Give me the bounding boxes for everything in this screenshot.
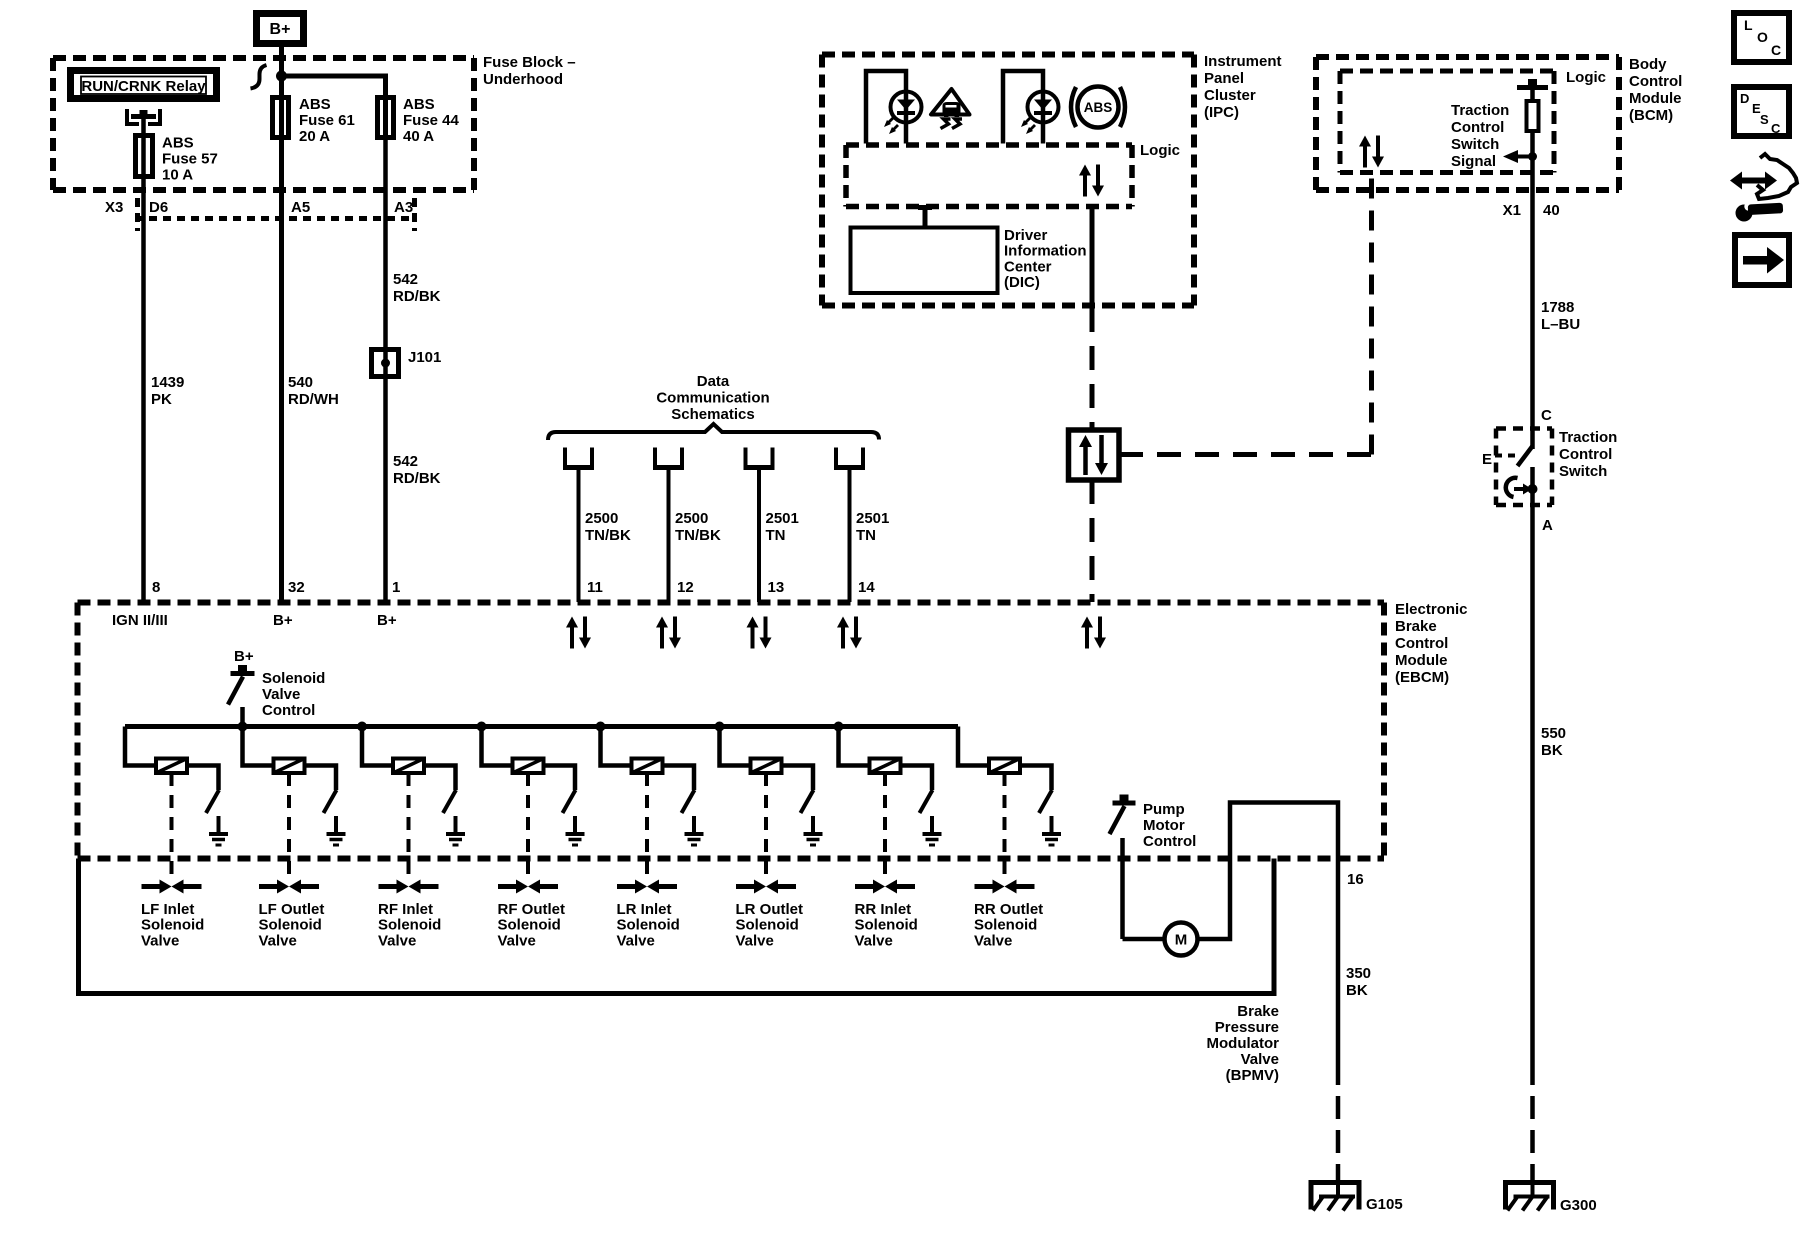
solenoid coil RF Inlet [393,759,424,774]
connector serial data 2 [653,448,657,468]
wire coil to driver switch RR Outlet [1020,766,1052,791]
serial data arrows EBCM from BCM link [1085,627,1089,649]
svg-text:40: 40 [1543,202,1560,219]
svg-text:2501: 2501 [766,510,799,527]
svg-text:Control: Control [262,702,315,719]
junction node bus RR Inlet [834,722,844,732]
svg-text:1: 1 [392,579,400,596]
svg-text:X1: X1 [1503,202,1521,219]
dashed serial data wire to EBCM [1090,480,1095,602]
svg-text:542: 542 [393,271,418,288]
svg-text:Fuse Block –: Fuse Block – [483,54,576,71]
wire coil to driver switch RF Inlet [424,766,456,791]
svg-text:C: C [1771,121,1781,136]
svg-text:Control: Control [1143,833,1196,850]
wire serial data 2501 TN [848,470,852,602]
svg-text:BK: BK [1346,982,1368,999]
ground G300 [1506,1183,1554,1210]
ground internal RR Inlet [930,816,934,834]
svg-text:ABS: ABS [403,96,435,113]
svg-text:2501: 2501 [856,510,889,527]
svg-text:Module: Module [1629,90,1682,107]
splice hook symbol at B+ branch [251,65,267,89]
svg-text:Panel: Panel [1204,70,1244,87]
svg-text:1439: 1439 [151,374,184,391]
svg-text:Solenoid: Solenoid [259,917,322,934]
svg-text:Traction: Traction [1451,102,1509,119]
dashed serial data wire to BCM [1119,452,1372,457]
dashed actuator wire LF Inlet [170,773,174,880]
svg-text:Valve: Valve [736,932,774,949]
svg-text:B+: B+ [234,648,254,665]
svg-text:S: S [1760,112,1769,127]
svg-text:X3: X3 [105,199,123,216]
svg-text:ABS: ABS [1084,100,1113,115]
serial data interface box [1069,430,1120,480]
dashed actuator wire LR Inlet [645,773,649,880]
solenoid coil LR Outlet [751,759,782,774]
svg-text:(IPC): (IPC) [1204,104,1239,121]
wire 350 BK dashed to G105 [1336,1062,1341,1185]
svg-text:Underhood: Underhood [483,71,563,88]
svg-text:Information: Information [1004,243,1087,260]
svg-text:550: 550 [1541,725,1566,742]
switch pump motor control [1113,801,1136,806]
svg-text:Pressure: Pressure [1215,1019,1279,1036]
valve symbol RR Inlet solenoid valve [855,884,873,889]
svg-text:Fuse 44: Fuse 44 [403,112,460,129]
dashed actuator wire LR Outlet [764,773,768,880]
valve symbol LR Inlet solenoid valve [617,884,635,889]
fuse F61 ABS Fuse 61 20A [273,98,289,138]
svg-text:10 A: 10 A [162,167,193,184]
svg-text:Solenoid: Solenoid [617,917,680,934]
svg-text:Electronic: Electronic [1395,601,1468,618]
junction node bus LR Outlet [715,722,725,732]
ground internal RF Inlet [454,816,458,834]
valve symbol RF Inlet solenoid valve [379,884,397,889]
svg-text:LR Outlet: LR Outlet [736,901,804,918]
svg-text:TN: TN [766,527,786,544]
svg-text:Fuse 57: Fuse 57 [162,151,218,168]
wire coil to driver switch LR Inlet [663,766,695,791]
solenoid coil LR Inlet [632,759,663,774]
svg-text:Logic: Logic [1140,142,1180,159]
wire bus drop RR Inlet [839,727,870,766]
wire bus drop RR Outlet [958,727,989,766]
svg-text:RR Outlet: RR Outlet [974,901,1043,918]
junction node bus LR Inlet [596,722,606,732]
wire motor to pin 16 net [1198,803,1339,1063]
connector terminal under RUN/CRNK relay [127,109,139,124]
svg-text:Solenoid: Solenoid [262,670,325,687]
svg-text:14: 14 [858,579,875,596]
wire bus drop RF Outlet [482,727,513,766]
svg-text:L–BU: L–BU [1541,316,1580,333]
svg-text:Traction: Traction [1559,429,1617,446]
indicator lamp ABS warning [1003,71,1043,144]
wire serial data 2500 TN/BK [667,470,671,602]
wire 542 RD/BK from fuse 44 to EBCM pin 1 [383,140,388,602]
svg-text:Driver: Driver [1004,227,1048,244]
wire resistor to pin 40 [1530,131,1535,429]
stub from logic to DIC [918,205,932,210]
driver switch LR Outlet [801,790,814,813]
valve symbol RF Outlet solenoid valve [498,884,516,889]
driver switch LF Outlet [324,790,337,813]
serial data arrows in EBCM [570,627,574,649]
connector serial data 3 [744,448,748,468]
ground internal LF Inlet [217,816,221,834]
svg-text:Control: Control [1451,119,1504,136]
svg-text:TN: TN [856,527,876,544]
serial data arrows IPC logic [1083,175,1087,197]
wire coil to driver switch LR Outlet [782,766,814,791]
BCM logic box [1340,69,1554,74]
svg-text:8: 8 [152,579,160,596]
ground internal RF Outlet [573,816,577,834]
svg-text:542: 542 [393,453,418,470]
dashed actuator wire RR Inlet [883,773,887,880]
svg-text:G300: G300 [1560,1197,1597,1214]
svg-text:Communication: Communication [656,390,769,407]
svg-text:13: 13 [768,579,785,596]
svg-text:Valve: Valve [259,932,297,949]
svg-text:O: O [1757,29,1768,45]
svg-text:540: 540 [288,374,313,391]
fuse block underhood box [53,55,474,61]
driver switch RR Outlet [1039,790,1052,813]
wire bus drop LF Inlet [125,727,156,766]
icon legend forward arrow box [1735,235,1789,285]
svg-text:Motor: Motor [1143,817,1185,834]
svg-text:IGN II/III: IGN II/III [112,612,168,629]
ground internal RR Outlet [1050,816,1054,834]
solenoid coil RR Outlet [989,759,1020,774]
splice J101 [372,350,399,377]
svg-text:Center: Center [1004,258,1052,275]
svg-text:(BCM): (BCM) [1629,107,1673,124]
svg-text:Data: Data [697,373,730,390]
svg-text:Valve: Valve [1241,1051,1279,1068]
svg-text:Control: Control [1395,635,1448,652]
svg-text:RR Inlet: RR Inlet [855,901,912,918]
solenoid supply bus wire [125,724,958,729]
svg-text:Valve: Valve [141,932,179,949]
driver switch LR Inlet [682,790,695,813]
svg-text:B+: B+ [377,612,397,629]
svg-text:Valve: Valve [498,932,536,949]
svg-text:A: A [1542,517,1553,534]
svg-text:BK: BK [1541,742,1563,759]
svg-text:Solenoid: Solenoid [974,917,1037,934]
body control module BCM box [1316,54,1619,60]
svg-text:(DIC): (DIC) [1004,274,1040,291]
solenoid coil RF Outlet [513,759,544,774]
svg-text:2500: 2500 [675,510,708,527]
wire branch to Fuse 44 [282,76,386,140]
svg-text:Switch: Switch [1451,136,1499,153]
svg-text:RD/WH: RD/WH [288,391,339,408]
serial data arrows BCM [1363,146,1367,168]
driver switch LF Inlet [206,790,219,813]
solenoid coil RR Inlet [870,759,901,774]
driver information center DIC box [851,228,998,294]
driver switch RF Outlet [563,790,576,813]
svg-text:32: 32 [288,579,305,596]
svg-text:PK: PK [151,391,172,408]
dashed actuator wire RF Inlet [407,773,411,880]
traction control switch S1 box [1496,426,1552,431]
svg-text:D6: D6 [149,199,168,216]
relay RUN/CRNK [71,71,217,99]
svg-text:J101: J101 [408,349,441,366]
driver switch RR Inlet [920,790,933,813]
svg-text:M: M [1175,932,1188,949]
junction node bus LF Outlet [238,722,248,732]
svg-text:350: 350 [1346,965,1371,982]
svg-text:Solenoid: Solenoid [736,917,799,934]
icon traction warning triangle car [931,89,970,115]
dashed actuator wire LF Outlet [287,773,291,880]
svg-text:11: 11 [587,579,603,596]
wire pump motor loop [1123,937,1165,942]
ground G105 [1311,1183,1359,1210]
driver switch RF Inlet [443,790,456,813]
fuse F44 ABS Fuse 44 40A [378,98,394,138]
svg-text:Switch: Switch [1559,463,1607,480]
svg-text:Pump: Pump [1143,801,1185,818]
wire bus drop RF Inlet [362,727,393,766]
svg-text:40 A: 40 A [403,128,434,145]
svg-text:20 A: 20 A [299,128,330,145]
svg-text:Body: Body [1629,56,1667,73]
junction node bus RF Inlet [357,722,367,732]
solenoid coil LF Inlet [156,759,187,774]
svg-text:A5: A5 [291,199,310,216]
dashed actuator wire RR Outlet [1003,773,1007,880]
wire coil to driver switch RR Inlet [901,766,933,791]
svg-text:Logic: Logic [1566,69,1606,86]
wire stub into switch C [1530,429,1535,450]
ground internal LR Inlet [692,816,696,834]
svg-text:LR Inlet: LR Inlet [617,901,672,918]
connector serial data 4 [834,448,838,468]
svg-text:Modulator: Modulator [1207,1035,1280,1052]
svg-text:Valve: Valve [262,686,300,703]
icon legend diagnostic arrows wrench [1739,178,1768,184]
svg-text:Solenoid: Solenoid [855,917,918,934]
valve symbol LF Outlet solenoid valve [259,884,277,889]
svg-text:RD/BK: RD/BK [393,470,441,487]
wire coil to driver switch RF Outlet [544,766,576,791]
wire bus drop LR Outlet [720,727,751,766]
svg-text:Brake: Brake [1237,1003,1279,1020]
electronic brake control module EBCM box [78,600,1385,606]
svg-text:Valve: Valve [617,932,655,949]
svg-text:LF Outlet: LF Outlet [259,901,325,918]
wire 550 BK to G300 [1530,505,1535,1062]
svg-text:TN/BK: TN/BK [675,527,721,544]
svg-text:Valve: Valve [855,932,893,949]
wire BPMV return [79,859,1275,994]
svg-text:L: L [1744,17,1753,33]
svg-text:Instrument: Instrument [1204,53,1282,70]
svg-text:12: 12 [677,579,694,596]
dashed actuator wire RF Outlet [526,773,530,880]
svg-text:ABS: ABS [299,96,331,113]
svg-text:Solenoid: Solenoid [498,917,561,934]
wire coil to driver switch LF Inlet [187,766,219,791]
switch blade traction control [1518,446,1533,466]
svg-text:Fuse 61: Fuse 61 [299,112,355,129]
junction node B+ branch [276,71,287,82]
svg-text:Solenoid: Solenoid [141,917,204,934]
connector serial data 1 [563,448,567,468]
power feed B+ terminal box [257,14,304,44]
fuse F57 ABS Fuse 57 10A [141,135,146,179]
IPC logic box [846,142,1132,148]
icon ABS warning [1078,87,1119,128]
wire 1439 PK from fuse 57 to EBCM pin 8 [141,179,146,602]
svg-text:Schematics: Schematics [671,406,754,423]
momentary arrow traction control switch [1506,478,1518,497]
svg-text:RF Outlet: RF Outlet [498,901,566,918]
svg-text:Brake: Brake [1395,618,1437,635]
switch solenoid valve control [231,671,255,676]
svg-text:2500: 2500 [585,510,618,527]
svg-text:LF Inlet: LF Inlet [141,901,194,918]
icon legend LOC box [1734,13,1789,62]
wire IPC logic to serial data node [1090,207,1095,309]
svg-text:D: D [1740,91,1749,106]
svg-text:(BPMV): (BPMV) [1226,1067,1279,1084]
indicator lamp traction warning [866,71,906,144]
traction control switch signal arrow [1528,152,1537,161]
wire bus drop LF Outlet [243,727,274,766]
svg-text:C: C [1771,42,1781,58]
ground internal LF Outlet [334,816,338,834]
svg-text:Control: Control [1629,73,1682,90]
svg-text:Solenoid: Solenoid [378,917,441,934]
instrument panel cluster IPC box [822,52,1194,58]
svg-text:(EBCM): (EBCM) [1395,669,1449,686]
wire B+ feed down to Fuse 61 and EBCM pin 32 [279,47,284,602]
svg-text:RF Inlet: RF Inlet [378,901,433,918]
B+ terminal above pull-up resistor [1517,85,1548,90]
svg-text:16: 16 [1347,871,1364,888]
icon legend DESC box [1734,87,1789,136]
svg-text:Valve: Valve [378,932,416,949]
svg-text:A3: A3 [394,199,413,216]
junction node bus RF Outlet [477,722,487,732]
svg-text:B+: B+ [270,21,291,38]
valve symbol RR Outlet solenoid valve [975,884,993,889]
brace over data communication wires [548,424,879,440]
svg-text:RD/BK: RD/BK [393,288,441,305]
wire serial data 2500 TN/BK [577,470,581,602]
svg-text:RUN/CRNK Relay: RUN/CRNK Relay [81,78,206,95]
resistor pull-up in BCM [1530,88,1535,102]
svg-text:C: C [1541,407,1552,424]
svg-text:Cluster: Cluster [1204,87,1256,104]
ground internal LR Outlet [811,816,815,834]
connector id strip X3 dotted line [135,216,417,221]
svg-text:E: E [1482,451,1492,468]
svg-text:TN/BK: TN/BK [585,527,631,544]
valve symbol LR Outlet solenoid valve [736,884,754,889]
solenoid coil LF Outlet [274,759,305,774]
wire coil to driver switch LF Outlet [305,766,337,791]
svg-text:1788: 1788 [1541,299,1574,316]
motor M pump [1165,923,1198,956]
svg-text:Module: Module [1395,652,1448,669]
svg-text:ABS: ABS [162,135,194,152]
svg-text:Signal: Signal [1451,153,1496,170]
wire bus drop LR Inlet [601,727,632,766]
valve symbol LF Inlet solenoid valve [142,884,160,889]
svg-text:Control: Control [1559,446,1612,463]
svg-text:Valve: Valve [974,932,1012,949]
wire serial data 2501 TN [757,470,761,602]
svg-text:G105: G105 [1366,1196,1403,1213]
svg-text:B+: B+ [273,612,293,629]
